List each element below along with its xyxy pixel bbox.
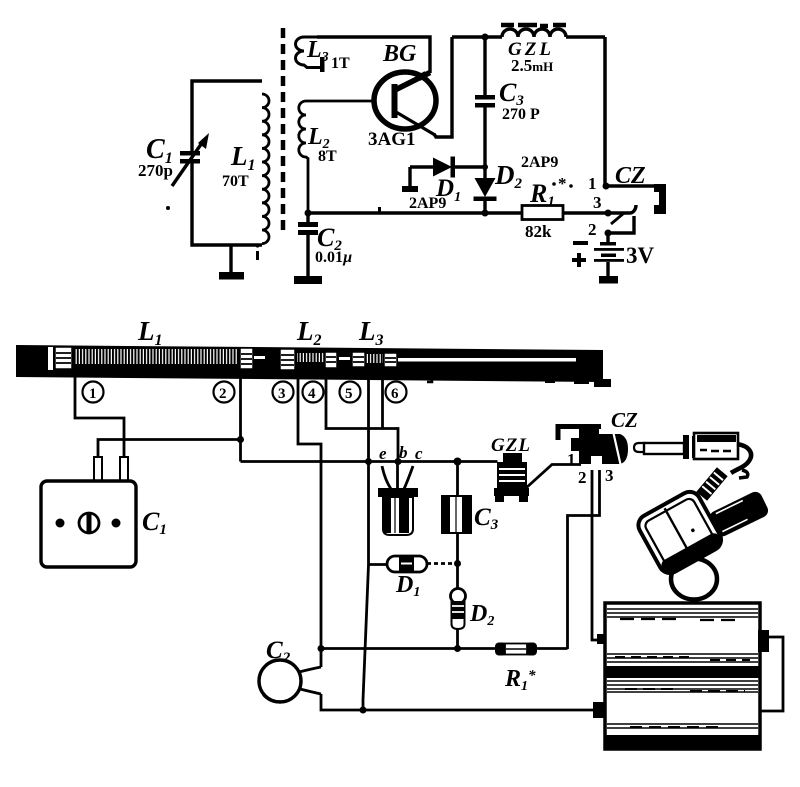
wire tick mark (scan noise on bus) (378, 207, 381, 214)
wire left tank loop (192, 81, 262, 245)
node tap2/C1 junction (237, 436, 244, 443)
wire long node row (tap2 to GZL) (241, 460, 458, 463)
capacitor C3 (schematic) (475, 37, 495, 178)
capacitor C1 (variable, plates and arrow) (172, 133, 209, 186)
node tap 6 circled (386, 382, 407, 403)
node tap 2 circled (214, 382, 235, 403)
inductor L2 (schematic coil 8T) (299, 101, 374, 214)
svg-text:2: 2 (578, 468, 587, 487)
label battery polarity and 3V (572, 241, 655, 268)
node bus left junction (318, 645, 325, 652)
wire bias bus (321, 647, 568, 650)
node D1 right junction (454, 560, 461, 567)
svg-text:*: * (558, 174, 567, 193)
svg-text:3: 3 (593, 193, 602, 212)
svg-text:1: 1 (567, 450, 576, 469)
earphone (pictorial) (634, 467, 770, 599)
label D2 2AP9 (494, 154, 558, 192)
diode D2 (pictorial) (451, 589, 466, 650)
capacitor C1 (pictorial trimmer box) (41, 457, 136, 567)
svg-text:270p: 270p (138, 161, 173, 180)
svg-text:c: c (415, 444, 423, 463)
label D1 2AP9 (409, 175, 461, 212)
label L1 70T (222, 141, 256, 190)
svg-text:CZ: CZ (611, 408, 638, 432)
svg-text:82k: 82k (525, 222, 552, 241)
wire tap2 down (239, 377, 242, 462)
node e row junction (365, 458, 372, 465)
diode D1 (pictorial) (369, 556, 458, 572)
coil clip 4 on rod (325, 352, 337, 368)
wire CZ contact2 to battery (592, 470, 602, 640)
wire L3 top to emitter (317, 37, 430, 73)
inductor L3 (schematic coil 1T) (296, 37, 325, 72)
node D2 bottom (482, 210, 489, 217)
node ground bus junction (360, 707, 367, 714)
wire CZ contact3 to R1 (568, 470, 600, 649)
svg-text:BG: BG (382, 41, 417, 67)
transistor BG (pictorial can) with e b c leads (378, 463, 418, 535)
wire tap5 long vertical (363, 377, 369, 710)
coil clip 5 on rod (352, 352, 365, 367)
svg-text:3: 3 (278, 386, 286, 402)
node D1-D2 junction (482, 164, 488, 170)
wire tap6 down (381, 377, 384, 429)
plug (earphone plug pictorial) (634, 433, 751, 478)
svg-text:2: 2 (588, 220, 597, 239)
ground (below tank loop) (219, 245, 244, 280)
ferrite core dashed line (281, 28, 286, 236)
wire tap3 to C2 (298, 377, 321, 667)
node C3 top junction (482, 34, 489, 41)
label e b c (379, 443, 423, 463)
node C3 top junction (pictorial) (454, 458, 462, 466)
svg-text:5: 5 (345, 386, 353, 402)
transistor BG 3AG1 (374, 71, 436, 135)
label C3 270P (499, 78, 540, 123)
svg-text:3: 3 (605, 466, 614, 485)
svg-text:2.5mH: 2.5mH (511, 56, 553, 75)
svg-text:1: 1 (588, 174, 597, 193)
coil clip 3 on rod (280, 349, 295, 370)
svg-text:b: b (399, 443, 408, 462)
coil clip 6 on rod (384, 353, 397, 367)
label contacts 1 2 3 (pictorial) (567, 450, 614, 487)
inductor L1 (schematic coil 70T) (262, 94, 269, 244)
capacitor C2 (schematic 0.01u) with ground (294, 210, 322, 285)
resistor R1 82k (522, 206, 563, 220)
svg-text:4: 4 (308, 386, 316, 402)
wire top bus to GZL (452, 35, 605, 39)
ferrite rod (16, 345, 611, 387)
capacitor C3 (pictorial tubular) (442, 462, 471, 590)
jack CZ (schematic) (603, 183, 667, 237)
inductor GZL 2.5mH (schematic choke) (501, 25, 566, 37)
svg-text:1T: 1T (331, 55, 350, 72)
battery 3V with ground (594, 233, 624, 284)
node tap 5 circled (340, 382, 361, 403)
capacitor C2 (pictorial disc) (259, 660, 595, 710)
battery (pictorial 3V pack) (593, 603, 783, 749)
svg-text:3V: 3V (626, 243, 655, 268)
label C2 0.01u (315, 223, 352, 266)
svg-text:2AP9: 2AP9 (521, 154, 558, 171)
label C1 value 270p (138, 134, 173, 180)
label R1 * 82k (525, 174, 573, 241)
svg-text:2: 2 (219, 386, 227, 402)
svg-text:CZ: CZ (615, 163, 646, 189)
coil clip 2 on rod (240, 348, 253, 369)
svg-text:2AP9: 2AP9 (409, 195, 446, 212)
svg-text:70T: 70T (222, 173, 249, 190)
diode D1 (schematic 2AP9) with ground (402, 157, 485, 193)
svg-text:GZL: GZL (491, 435, 531, 456)
svg-text:6: 6 (391, 386, 399, 402)
node b junction (395, 458, 402, 465)
node tap 4 circled (303, 382, 324, 403)
diode D2 (schematic 2AP9) (474, 178, 497, 213)
resistor R1 (pictorial) (495, 643, 537, 656)
label L2 8T (307, 124, 337, 165)
inductor GZL (pictorial choke) (458, 453, 582, 502)
svg-text:8T: 8T (318, 148, 337, 165)
svg-text:270 P: 270 P (502, 106, 540, 123)
wire tap1 to C1 right lug (75, 377, 124, 457)
wire tap4 jog to base lead (326, 377, 398, 462)
svg-text:3AG1: 3AG1 (368, 129, 416, 150)
node D2 bottom junction (454, 645, 461, 652)
coil clip 1 on rod (55, 347, 72, 369)
wire C1 left lug to tap2 node (98, 440, 241, 458)
wire right rail to CZ (603, 37, 607, 186)
node tap 1 circled (83, 382, 104, 403)
svg-text:0.01µ: 0.01µ (315, 249, 352, 266)
svg-text:e: e (379, 444, 387, 463)
label L3 1T (306, 37, 350, 72)
jack CZ (pictorial) with bracket (558, 427, 628, 472)
label GZL 2.5mH (508, 39, 554, 75)
node tap 3 circled (273, 382, 294, 403)
wire bottom bus (308, 211, 608, 214)
svg-text:1: 1 (89, 386, 97, 402)
wire collector to top bus (434, 37, 452, 137)
label CZ and contacts 1 3 2 (588, 163, 646, 239)
